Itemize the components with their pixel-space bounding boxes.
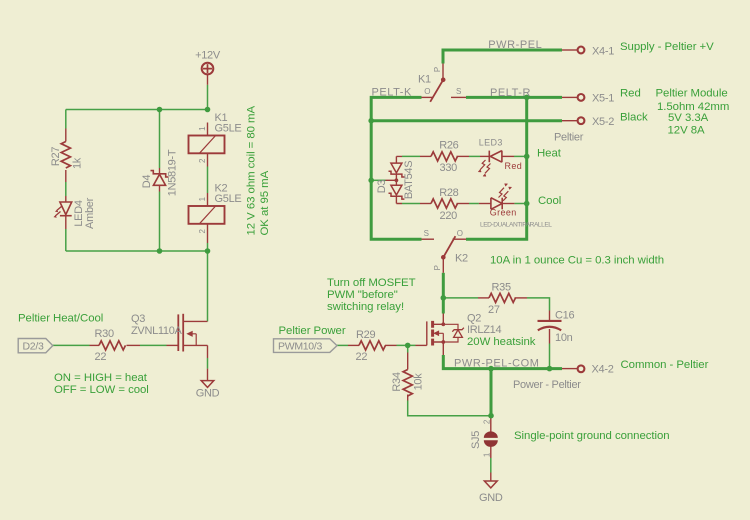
- wire cool branch a: [402, 203, 420, 205]
- ground GND left: [201, 381, 214, 388]
- pin Q3 gate: [167, 344, 179, 346]
- pin Q2 drain: [433, 314, 443, 325]
- pin K1 coil 1: [207, 123, 209, 136]
- svg-text:Single-point ground connection: Single-point ground connection: [514, 430, 670, 442]
- pin X5-1: [562, 96, 577, 98]
- junction rail C16: [547, 366, 553, 372]
- svg-text:10k: 10k: [413, 373, 425, 391]
- svg-text:27: 27: [488, 304, 500, 316]
- LED green element: [491, 184, 512, 210]
- svg-text:P: P: [433, 265, 442, 270]
- svg-text:220: 220: [440, 210, 458, 222]
- net flag PWM10/3: [274, 339, 338, 353]
- svg-text:Q3: Q3: [131, 313, 145, 325]
- junction heat node: [524, 154, 530, 160]
- relay contact K2: [441, 236, 455, 259]
- svg-text:Black: Black: [620, 112, 648, 124]
- svg-text:Power - Peltier: Power - Peltier: [513, 379, 581, 391]
- svg-text:K2: K2: [455, 253, 468, 265]
- svg-text:1.5ohm 42mm: 1.5ohm 42mm: [657, 101, 729, 113]
- wire D3 tap: [371, 179, 385, 181]
- svg-text:O: O: [424, 87, 430, 96]
- svg-text:PELT-R: PELT-R: [490, 87, 531, 99]
- svg-text:PWM10/3: PWM10/3: [278, 341, 322, 353]
- svg-text:G5LE: G5LE: [215, 122, 242, 134]
- relay coil K1: [189, 136, 225, 154]
- resistor R35: [489, 293, 516, 302]
- wire cool branch b: [469, 203, 479, 205]
- pin ring X4-2: [578, 365, 585, 372]
- pin K2 coil 1: [207, 193, 209, 206]
- wire junction to Q3 drain: [207, 251, 209, 321]
- svg-text:20W heatsink: 20W heatsink: [467, 336, 536, 348]
- pin LED3 right: [502, 155, 514, 157]
- pin C16 bottom: [549, 329, 551, 344]
- pin R26 left: [420, 155, 431, 157]
- svg-text:D2/3: D2/3: [23, 340, 44, 352]
- pin ring X4-1: [578, 47, 585, 54]
- pin R35 right: [515, 297, 528, 299]
- pin LED3 left: [480, 155, 489, 157]
- pin LED4 top: [65, 196, 67, 202]
- resistor R30: [99, 341, 126, 350]
- junction K2 bottom: [205, 248, 211, 254]
- wire net PELT-K: [371, 97, 421, 239]
- svg-text:PWR-PEL: PWR-PEL: [488, 39, 542, 51]
- wire cool branch c: [514, 203, 526, 205]
- junction X5-2 tee: [368, 118, 374, 124]
- pin Q3 source down: [207, 345, 209, 358]
- supply +12V symbol: [202, 63, 214, 75]
- pin K2 coil 2: [207, 224, 209, 243]
- pin R28 left: [420, 203, 431, 205]
- wire K2 node to R35: [443, 297, 478, 299]
- svg-text:G5LE: G5LE: [215, 193, 242, 205]
- LED LED3 red element: [478, 151, 502, 177]
- svg-text:Peltier: Peltier: [554, 132, 584, 144]
- wire left rail to R27: [65, 110, 67, 129]
- pin SJ5 top: [490, 416, 492, 432]
- resistor R26: [431, 152, 457, 161]
- svg-text:12 V 63 ohm coil = 80 mA: 12 V 63 ohm coil = 80 mA: [246, 105, 258, 235]
- resistor R28: [431, 199, 457, 208]
- svg-text:IRLZ14: IRLZ14: [467, 324, 501, 336]
- svg-text:PWR-PEL-COM: PWR-PEL-COM: [454, 358, 540, 370]
- svg-text:LED-DUALANTIPARALLEL: LED-DUALANTIPARALLEL: [480, 221, 552, 228]
- pin SJ5 bottom: [490, 447, 492, 459]
- svg-text:PWM "before": PWM "before": [327, 289, 398, 301]
- ground GND right: [484, 481, 497, 488]
- wire net X5-2: [371, 119, 562, 122]
- junction PELT-R tee: [524, 95, 530, 101]
- wire LED4 down: [65, 229, 67, 251]
- wire D4 top: [159, 110, 161, 169]
- svg-text:Amber: Amber: [84, 197, 96, 229]
- svg-text:Common - Peltier: Common - Peltier: [621, 359, 709, 371]
- svg-text:12V 8A: 12V 8A: [668, 124, 706, 136]
- pin X5-2: [562, 120, 577, 122]
- wire heat branch c: [514, 155, 527, 157]
- svg-text:D3: D3: [376, 180, 388, 194]
- pin R28 right: [457, 203, 470, 205]
- svg-text:OFF = LOW = cool: OFF = LOW = cool: [54, 384, 149, 396]
- svg-text:10n: 10n: [555, 332, 573, 344]
- svg-text:R30: R30: [95, 328, 114, 340]
- diode D4 schottky: [151, 171, 169, 186]
- pin Q2 source: [433, 342, 443, 355]
- pin Q2 gate: [416, 344, 427, 346]
- wire rail to SJ5: [490, 369, 493, 416]
- junction +12V node: [205, 107, 211, 113]
- svg-text:GND: GND: [196, 387, 220, 399]
- svg-text:ON = HIGH = heat: ON = HIGH = heat: [54, 372, 148, 384]
- pin K1 contact P: [442, 64, 444, 80]
- svg-text:R35: R35: [492, 281, 511, 293]
- svg-text:Green: Green: [490, 208, 517, 218]
- pin R35 left: [478, 297, 489, 299]
- relay coil K2: [189, 206, 225, 224]
- svg-text:SJ5: SJ5: [470, 431, 482, 449]
- pin D3 bottom: [396, 197, 402, 204]
- pin R30 right: [127, 344, 141, 346]
- wire C16 to rail: [549, 344, 551, 369]
- pin LED green right: [502, 203, 514, 205]
- svg-text:C16: C16: [555, 309, 574, 321]
- wire net PELT-R: [466, 96, 562, 99]
- svg-text:ZVNL110A: ZVNL110A: [131, 325, 183, 337]
- wire K2 to junction: [207, 243, 209, 251]
- pin D4 top: [159, 168, 161, 174]
- transistor Q2: [427, 321, 464, 346]
- pin K2 contact O: [453, 238, 467, 240]
- resistor R29: [359, 341, 385, 350]
- wire D2/3 flag to R30: [53, 344, 90, 346]
- pin R27 top: [65, 129, 67, 142]
- svg-text:Turn off MOSFET: Turn off MOSFET: [327, 277, 416, 289]
- pin R29 left: [348, 344, 359, 346]
- transistor Q3: [178, 314, 207, 352]
- pin K1 contact S: [451, 96, 466, 98]
- junction SJ5 top: [488, 413, 494, 419]
- junction gate node: [405, 343, 411, 349]
- svg-text:R26: R26: [439, 140, 458, 152]
- svg-text:X5-2: X5-2: [592, 116, 614, 128]
- svg-text:R29: R29: [356, 329, 375, 341]
- net flag D2/3: [18, 339, 53, 353]
- pin +12V supply: [207, 74, 209, 85]
- LED LED4: [54, 202, 71, 217]
- svg-text:Peltier Heat/Cool: Peltier Heat/Cool: [18, 312, 103, 324]
- pin R27 bottom: [65, 170, 67, 182]
- svg-text:Red: Red: [505, 161, 523, 171]
- pin K1 coil 2: [207, 153, 209, 166]
- svg-text:GND: GND: [479, 492, 503, 504]
- pin D3 tap: [386, 179, 397, 181]
- wire bottom-left horizontal: [66, 250, 208, 252]
- diode D3 dual schottky: [389, 163, 405, 199]
- pin R34 top: [407, 353, 409, 370]
- pin D3 top: [396, 156, 402, 163]
- pin ring X5-1: [578, 94, 585, 101]
- wire gate node to R34: [407, 345, 409, 352]
- wire R27 to LED4: [65, 182, 67, 196]
- pin R34 bottom: [407, 395, 409, 401]
- svg-text:PELT-K: PELT-K: [372, 87, 413, 99]
- svg-text:10A in 1 ounce Cu = 0.3 inch w: 10A in 1 ounce Cu = 0.3 inch width: [490, 254, 664, 266]
- svg-text:BAT54S: BAT54S: [403, 161, 415, 199]
- svg-text:5V 3.3A: 5V 3.3A: [668, 112, 709, 124]
- pin GND left: [207, 369, 209, 381]
- svg-text:R34: R34: [391, 372, 403, 391]
- svg-text:R27: R27: [50, 147, 62, 166]
- svg-text:K1: K1: [418, 74, 431, 86]
- pin R30 left: [90, 344, 100, 346]
- svg-text:Peltier Power: Peltier Power: [279, 325, 346, 337]
- svg-text:1k: 1k: [72, 157, 84, 169]
- pin X4-1: [562, 49, 577, 51]
- wire SJ5 to GND: [490, 458, 492, 473]
- svg-text:330: 330: [440, 162, 458, 174]
- wire net PWR-PEL-COM: [443, 355, 562, 369]
- wire top-left horizontal: [66, 109, 208, 111]
- svg-text:Red: Red: [620, 88, 641, 100]
- pin LED green left: [479, 203, 491, 205]
- pin K2 contact S: [422, 238, 435, 240]
- svg-text:22: 22: [356, 351, 368, 363]
- pin R26 right: [457, 155, 470, 157]
- resistor R27: [61, 142, 70, 168]
- svg-text:S: S: [424, 229, 429, 238]
- svg-text:Q2: Q2: [467, 313, 481, 325]
- svg-text:switching relay!: switching relay!: [327, 301, 404, 313]
- wire R30 to Q3 gate: [140, 344, 167, 346]
- relay contact K1: [430, 78, 445, 102]
- wire R29 to gate node: [397, 344, 416, 346]
- svg-text:+12V: +12V: [195, 49, 221, 61]
- pin R29 right: [385, 344, 397, 346]
- svg-text:LED3: LED3: [479, 138, 503, 148]
- svg-text:S: S: [456, 87, 461, 96]
- wire net PELT-R vertical: [466, 97, 527, 239]
- wire PWM flag to R29: [337, 344, 348, 346]
- junction D4 top: [157, 107, 163, 113]
- junction D4 bottom: [157, 248, 163, 254]
- junction rail SJ5: [488, 366, 494, 372]
- solder jumper SJ5: [484, 431, 498, 446]
- wire net PWR-PEL: [443, 50, 562, 64]
- pin C16 top: [549, 311, 551, 321]
- wire heat branch a: [402, 155, 420, 157]
- wire +12V to junction: [207, 85, 209, 110]
- svg-text:22: 22: [95, 351, 107, 363]
- wire K1 to K2: [207, 167, 209, 194]
- wire R34 bottom: [408, 401, 491, 416]
- svg-text:Peltier Module: Peltier Module: [656, 88, 728, 100]
- junction D3 tee: [368, 178, 374, 184]
- junction R35 node: [441, 295, 447, 301]
- wire K2 pole down: [442, 273, 445, 314]
- wire heat branch b: [469, 155, 480, 157]
- svg-text:Heat: Heat: [537, 148, 562, 160]
- svg-text:P: P: [433, 67, 442, 72]
- svg-text:X4-2: X4-2: [592, 364, 614, 376]
- resistor R34 vertical: [403, 370, 412, 396]
- pin LED4 bottom: [65, 216, 67, 229]
- svg-text:X5-1: X5-1: [592, 92, 614, 104]
- svg-text:Supply - Peltier +V: Supply - Peltier +V: [620, 41, 714, 53]
- pin D4 bottom: [159, 186, 161, 192]
- pin GND right: [490, 473, 492, 481]
- pin K2 contact P: [442, 257, 444, 273]
- wire Q3 source to GND: [207, 358, 209, 369]
- svg-text:OK at 95 mA: OK at 95 mA: [259, 170, 271, 235]
- svg-text:1N5819-T: 1N5819-T: [167, 149, 179, 196]
- pin K1 contact O: [422, 96, 434, 98]
- svg-text:O: O: [457, 229, 463, 238]
- pin D3 mid: [395, 175, 397, 186]
- capacitor C16: [538, 321, 562, 330]
- pin X4-2: [562, 368, 577, 370]
- svg-text:D4: D4: [141, 175, 153, 189]
- svg-text:R28: R28: [439, 187, 458, 199]
- wire R35 to C16: [527, 298, 550, 311]
- wire D4 bottom: [159, 192, 161, 252]
- junction cool node: [524, 201, 530, 207]
- svg-text:Cool: Cool: [538, 195, 561, 207]
- pin ring X5-2: [578, 117, 585, 124]
- svg-text:X4-1: X4-1: [592, 45, 614, 57]
